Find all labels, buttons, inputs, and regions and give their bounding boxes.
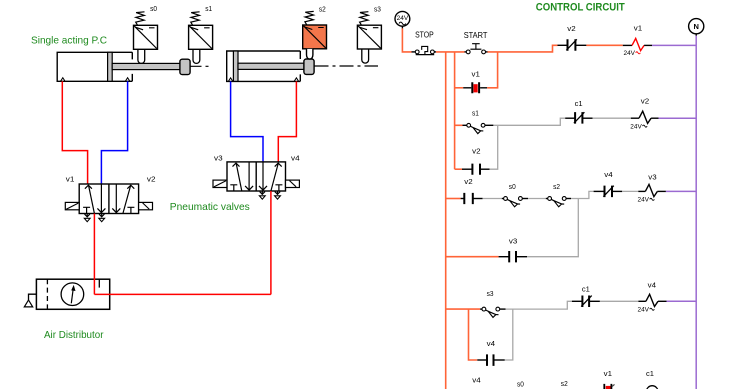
air distributor outlet port marker: [98, 279, 100, 287]
svg-text:v1: v1: [604, 369, 612, 378]
v2 holding contact branch (orange): [455, 168, 462, 170]
valve v3/v4 body: [227, 162, 286, 191]
svg-text:s3: s3: [487, 289, 494, 298]
limit valve s2 spring: [305, 11, 314, 25]
v3 NO holding contact: [499, 256, 509, 258]
valve v1/v2 right box flow arrow: [123, 186, 131, 214]
cylinder B piston: [233, 51, 238, 81]
svg-text:Single acting P.C: Single acting P.C: [31, 35, 107, 47]
cylinder A port 1 marker: [61, 78, 65, 82]
valve v3/v4 right box blocked port T: [275, 185, 282, 191]
wire: supply from distributor to valve v1 (red): [93, 214, 95, 295]
valve v3/v4 left box passage with arrow: [248, 162, 250, 191]
s3 limit switch NO contact (rung 4): [480, 308, 482, 310]
air distributor body: [36, 279, 109, 309]
valve v3/v4 left box flow arrow: [236, 164, 242, 192]
limit valve s3 plunger: [362, 49, 369, 63]
wire: v2 to s0 (gray): [483, 198, 502, 200]
v1 holding contact branch wire (orange): [455, 87, 464, 89]
cylinder B rod: [238, 63, 304, 69]
air distributor gauge: [61, 283, 84, 306]
limit valve s0 plunger: [138, 49, 145, 63]
cylinder B port 2 marker: [294, 78, 298, 82]
N rail source circle: [689, 19, 704, 34]
v2 NC contact (rung 1): [558, 44, 568, 46]
valve v1/v2 right box blocked port T: [127, 207, 134, 213]
valve v2 right pilot: [139, 202, 153, 209]
wire: v2 holding contact up to rung 2 (gray): [490, 125, 498, 169]
svg-text:v2: v2: [147, 174, 156, 183]
valve v1/v2 exhaust 3: [101, 214, 103, 218]
svg-text:24V: 24V: [397, 15, 409, 22]
svg-text:c1: c1: [646, 369, 654, 378]
air supply source triangle: [24, 300, 32, 307]
svg-text:s2: s2: [319, 5, 326, 14]
s2 limit switch NO contact (rung 3): [546, 198, 548, 200]
svg-text:24V: 24V: [638, 306, 650, 313]
limit valve s1 box: [189, 25, 213, 49]
svg-text:24V: 24V: [638, 197, 650, 204]
limit valve s3 spring: [360, 12, 369, 26]
v4 NC contact (rung 3): [594, 190, 604, 192]
svg-text:N: N: [693, 22, 698, 31]
wire: c1 to v2 coil (gray): [593, 117, 631, 119]
relay coil v4: [638, 300, 646, 302]
wire: v1 coil to N rail (purple): [652, 44, 696, 46]
wire: s2 to v4 with junction and jog (gray): [571, 191, 594, 198]
svg-text:v4: v4: [648, 280, 656, 289]
wire: v2 coil to N rail (purple): [659, 117, 697, 119]
valve v3/v4 exhaust 5: [261, 191, 263, 195]
wire: s3 to c1 with junction and jog (gray): [506, 301, 572, 309]
valve v1/v2 body: [79, 184, 138, 214]
wire: v4 coil to N rail (purple): [667, 300, 697, 302]
limit valve s0 spring: [136, 12, 145, 25]
s1 limit switch NO contact: [463, 124, 467, 126]
cylinder A body: [57, 52, 132, 81]
valve v1 left pilot: [65, 202, 79, 209]
v2 NO contact (rung 3): [461, 198, 464, 200]
START NO pushbutton contact: [465, 51, 467, 53]
svg-text:v4: v4: [291, 153, 300, 162]
svg-text:s1: s1: [472, 108, 479, 117]
svg-text:24V: 24V: [624, 50, 636, 57]
valve v3/v4 right box flow arrow (1 to 2): [271, 164, 278, 192]
cylinder A piston: [108, 52, 113, 81]
cylinder A port 2 marker: [125, 78, 129, 82]
wire: cylinder A right port to valve v1 port 2 (blue): [101, 81, 127, 184]
wire: cylinder B right port to valve v3 port 4 (red): [278, 81, 296, 161]
rung 3 tap (orange): [446, 198, 461, 200]
counter coil c1 (rung 5, clipped at bottom): [646, 386, 658, 389]
valve v1/v2 exhaust 5: [86, 214, 88, 218]
wire: s0 to s2 (gray): [528, 198, 546, 200]
indicator lamp v1 (rung 5, lit, clipped at bottom): [606, 386, 611, 389]
wire: v3 holding contact up to rung 3 (gray): [527, 199, 578, 257]
svg-text:s3: s3: [374, 5, 381, 14]
svg-text:Air Distributor: Air Distributor: [44, 329, 104, 341]
wire: cylinder A left port to valve v1 port 4 (red): [62, 81, 87, 184]
air distributor internal dashed divider: [46, 279, 48, 309]
svg-text:v1: v1: [66, 174, 75, 183]
svg-text:s1: s1: [205, 4, 212, 13]
relay coil v1 (energized, red): [623, 44, 632, 46]
svg-text:24V: 24V: [630, 123, 642, 130]
rung 2 tap (orange): [455, 124, 463, 126]
left rail (orange): [445, 52, 447, 389]
v4 holding branch drop (orange): [469, 309, 478, 360]
wire: supply riser to valve v3 (red): [270, 191, 272, 294]
wire: v4 holding contact up to rung 4 (gray): [505, 309, 513, 360]
limit valve s1 plunger: [193, 49, 200, 63]
limit valve s1 spring: [191, 12, 200, 25]
rung 4 tap (orange): [446, 308, 480, 310]
v3 holding branch tap (orange): [446, 256, 499, 258]
svg-text:v3: v3: [648, 173, 656, 182]
svg-text:v1: v1: [472, 70, 480, 79]
svg-text:STOP: STOP: [415, 30, 434, 40]
svg-text:CONTROL CIRCUIT: CONTROL CIRCUIT: [536, 2, 625, 14]
cylinder B stroke dash line: [315, 65, 379, 67]
wire: c1 to v4 coil (gray): [600, 300, 639, 302]
relay coil v2: [631, 117, 639, 119]
svg-text:v2: v2: [464, 177, 472, 186]
c1 NC contact (rung 4): [572, 300, 582, 302]
wire: STOP to START (orange) with rail taps: [436, 51, 465, 53]
svg-text:v3: v3: [509, 236, 517, 245]
svg-text:Pneumatic valves: Pneumatic valves: [170, 201, 250, 213]
limit valve s2 box (actuated, orange): [303, 25, 327, 49]
wire: v4 to v3 coil (gray): [622, 190, 638, 192]
wire: cylinder B left port to valve v3 port 2 (blue): [231, 81, 263, 161]
wire: v2 contact to v1 coil (orange): [586, 44, 622, 46]
valve v3/v4 left box blocked port T: [230, 185, 237, 191]
svg-text:s0: s0: [517, 379, 524, 388]
svg-text:s0: s0: [150, 4, 157, 13]
cylinder A stroke dash line: [191, 65, 210, 67]
valve v1/v2 left box passage 2-3 with arrow: [100, 184, 102, 213]
air distributor inlet line: [29, 294, 37, 300]
svg-text:START: START: [464, 30, 488, 40]
valve v3/v4 right box passage 2-3 with arrow: [262, 162, 264, 191]
wire: START output to jog (orange): [488, 45, 558, 52]
24V supply source circle: [395, 11, 410, 26]
cylinder A rod: [112, 63, 180, 69]
limit valve s2 plunger (pressed): [307, 49, 313, 59]
wire: v3 coil to N rail (purple): [666, 190, 696, 192]
svg-text:s0: s0: [509, 182, 516, 191]
wire: s1 to c1 with junction (gray): [493, 118, 565, 125]
relay coil v3: [638, 190, 645, 192]
STOP NC pushbutton contact: [412, 51, 416, 53]
wire: supply manifold horizontal (red): [94, 293, 271, 295]
valve v4 right pilot: [286, 180, 300, 187]
svg-text:v2: v2: [641, 97, 649, 106]
limit valve s3 box: [357, 25, 381, 49]
valve v3/v4 exhaust 3: [277, 191, 279, 195]
svg-text:v4: v4: [487, 339, 495, 348]
c1 NC contact (rung 2): [565, 117, 574, 119]
v1 NO holding contact (closed, red indicator): [474, 84, 478, 92]
cylinder B rod end block: [304, 59, 314, 74]
valve v1/v2 right box passage with arrow: [115, 184, 117, 213]
svg-text:v2: v2: [472, 146, 480, 155]
s0 limit switch NO contact (rung 3): [502, 198, 504, 200]
svg-text:v4: v4: [604, 170, 612, 179]
bus branch after STOP (orange): [454, 52, 456, 169]
svg-text:c1: c1: [575, 99, 583, 108]
svg-text:v1: v1: [634, 24, 642, 33]
svg-text:v4: v4: [472, 375, 480, 384]
wire: 24V source drop (orange): [401, 26, 403, 28]
valve v3/v4 position divider: [255, 162, 257, 191]
svg-text:s2: s2: [561, 379, 568, 388]
right rail N (purple): [695, 36, 697, 389]
valve v1/v2 left box flow arrow (1 to 4): [89, 186, 95, 214]
svg-text:v2: v2: [567, 24, 575, 33]
svg-text:v3: v3: [214, 153, 223, 162]
svg-text:s2: s2: [553, 182, 560, 191]
limit valve s0 box: [134, 25, 158, 49]
cylinder B body: [227, 51, 301, 81]
valve v1/v2 position divider: [108, 184, 110, 214]
v2 NO holding contact: [462, 168, 472, 170]
valve v1/v2 left box blocked port T: [83, 207, 90, 213]
cylinder B port 1 marker: [228, 78, 232, 82]
cylinder A rod end block: [180, 59, 190, 74]
v4 NO holding contact: [477, 359, 486, 361]
svg-text:c1: c1: [582, 284, 590, 293]
valve v3 left pilot: [213, 180, 227, 187]
wire: v1 holding contact to rung 1 (orange): [487, 52, 497, 88]
